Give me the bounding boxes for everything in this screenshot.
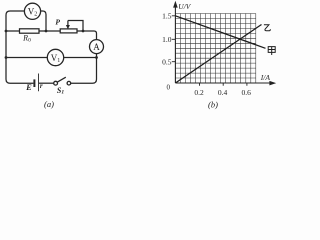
svg-text:1.5: 1.5 <box>162 11 172 20</box>
svg-text:0.4: 0.4 <box>218 88 228 97</box>
svg-text:P: P <box>55 17 60 26</box>
svg-text:E: E <box>25 82 32 92</box>
svg-text:(b): (b) <box>208 99 218 109</box>
svg-text:0.6: 0.6 <box>242 88 252 97</box>
svg-text:(a): (a) <box>44 99 54 109</box>
svg-text:I/A: I/A <box>260 73 271 82</box>
svg-text:0.2: 0.2 <box>194 88 204 97</box>
svg-text:1.0: 1.0 <box>162 35 172 44</box>
svg-text:A: A <box>93 42 100 52</box>
svg-text:r: r <box>40 82 43 90</box>
svg-text:0: 0 <box>167 83 171 91</box>
svg-text:0.5: 0.5 <box>162 57 172 66</box>
svg-text:U/V: U/V <box>178 2 192 11</box>
